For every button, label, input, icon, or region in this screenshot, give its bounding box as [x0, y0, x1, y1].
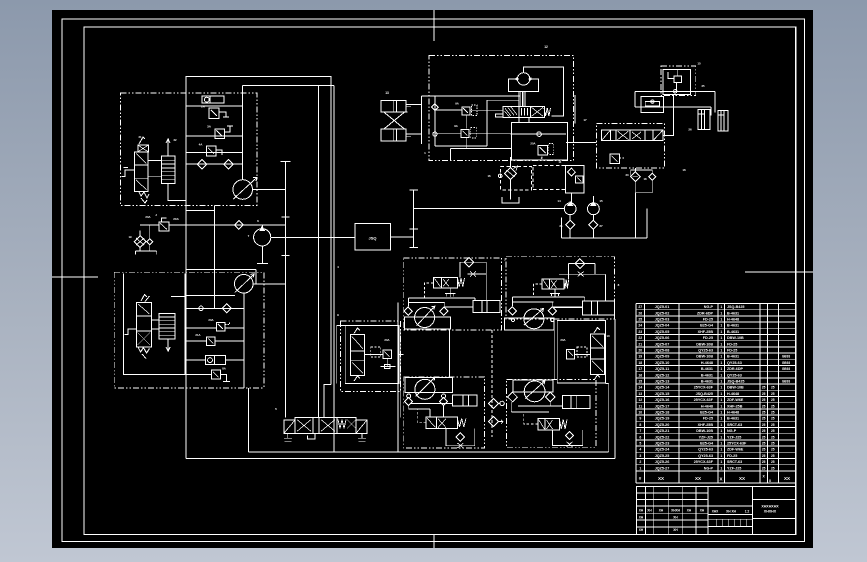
title block left grid: [637, 492, 708, 494]
MC3 motor base: [405, 377, 452, 392]
MC3 bus lines: [411, 402, 452, 404]
big rectangle R1 outline: [186, 76, 331, 458]
svg-text:25: 25: [771, 386, 775, 390]
check diamond on supply: [235, 221, 244, 230]
svg-text:H-4648: H-4648: [727, 318, 739, 322]
svg-text:18: 18: [643, 177, 647, 181]
svg-text:24: 24: [638, 324, 642, 328]
svg-text:18: 18: [638, 361, 642, 365]
MC4 directional valve: [538, 419, 560, 430]
valve V24 drain arrow: [167, 339, 169, 350]
svg-text:1: 1: [720, 404, 722, 408]
svg-text:1: 1: [720, 454, 722, 458]
svg-text:1: 1: [720, 392, 722, 396]
valve V23-V24 connections: [151, 319, 159, 321]
svg-text:25: 25: [762, 386, 766, 390]
filter bracket tank: [139, 247, 141, 251]
svg-text:JQZ5-12: JQZ5-12: [655, 373, 670, 377]
wire MC pair left: [397, 302, 399, 452]
svg-text:FD-25: FD-25: [727, 454, 737, 458]
svg-text:JQZ5-27: JQZ5-27: [655, 466, 670, 470]
svg-text:12: 12: [544, 45, 548, 49]
cylinder feed vertical: [420, 96, 422, 144]
junction ticks on riser: [281, 216, 289, 218]
svg-text:JQZ5-17: JQZ5-17: [655, 404, 670, 408]
line y106 block1: [186, 105, 243, 107]
port circle: [199, 306, 203, 310]
svg-text:2: 2: [639, 460, 641, 464]
svg-text:25: 25: [771, 411, 775, 415]
svg-text:20A: 20A: [173, 217, 179, 221]
svg-text:YZF-J25: YZF-J25: [727, 435, 741, 439]
svg-text:25YCX-63F: 25YCX-63F: [694, 398, 714, 402]
svg-text:JQZ5-21: JQZ5-21: [655, 429, 670, 433]
pump P2: [254, 229, 271, 246]
svg-text:1: 1: [720, 429, 722, 433]
svg-text:B-4631: B-4631: [727, 417, 739, 421]
svg-text:1: 1: [720, 330, 722, 334]
MC3 brake cylinder: [452, 395, 477, 406]
relief valve 3A: [215, 129, 225, 139]
valve V2 tank stub: [519, 117, 529, 123]
svg-text:1: 1: [720, 324, 722, 328]
valve V22 arrow stem: [167, 139, 169, 156]
drive line to aux pumps: [414, 207, 565, 209]
MC1 brake cylinder: [473, 300, 500, 312]
block 10 pipe: [575, 354, 591, 356]
MC2 valve tank: [554, 289, 556, 293]
MC1 valve tank: [449, 288, 451, 294]
svg-text:JQZ5-22: JQZ5-22: [655, 435, 670, 439]
valve V21-V22 connections: [148, 160, 161, 162]
svg-text:JQZ5-18: JQZ5-18: [655, 411, 670, 415]
suction bus line: [562, 237, 647, 239]
block 10 relief: [567, 349, 575, 359]
filter box 16 dashed: [501, 167, 532, 190]
title block outline: [637, 486, 796, 534]
svg-text:22: 22: [638, 336, 642, 340]
dash-dot enclosure D3: [429, 56, 574, 161]
suction filter 19: [134, 236, 146, 248]
svg-text:XH: XH: [639, 509, 644, 513]
svg-text:DBW-10B: DBW-10B: [696, 429, 713, 433]
gauge to valve pipes: [518, 92, 520, 107]
svg-text:25: 25: [771, 404, 775, 408]
dash-dot enclosure D2: [114, 272, 264, 388]
svg-text:20A: 20A: [530, 142, 535, 146]
svg-text:B-4631: B-4631: [727, 355, 739, 359]
svg-text:20A: 20A: [560, 338, 565, 342]
svg-text:1: 1: [720, 398, 722, 402]
pilot return x486.9: [486, 100, 488, 146]
svg-text:JSQ-B425: JSQ-B425: [696, 392, 713, 396]
svg-text:JQZ5-04: JQZ5-04: [655, 324, 671, 328]
svg-text:B25-G4: B25-G4: [700, 442, 714, 446]
valve 5 tank stubs: [284, 433, 292, 441]
svg-text:25YCX-63F: 25YCX-63F: [727, 442, 747, 446]
pump P3 outlet: [253, 283, 285, 285]
main drive line from pump P2 to gearbox: [271, 236, 355, 238]
tank bus line lower: [186, 458, 615, 460]
bus risers: [248, 388, 250, 452]
svg-text:20A: 20A: [208, 318, 213, 322]
reducing valve 20A: [159, 222, 169, 231]
relief valve 4A: [206, 146, 216, 156]
MC3 bottom loop with check and throttle: [446, 428, 475, 445]
svg-text:XH: XH: [687, 509, 692, 513]
svg-text:1: 1: [720, 318, 722, 322]
BOM parts table grid: [636, 303, 796, 305]
svg-text:B-4631: B-4631: [701, 380, 713, 384]
motor circuit 3 enclosure: [404, 377, 485, 448]
svg-text:1: 1: [720, 380, 722, 384]
svg-text:XX: XX: [784, 476, 790, 481]
svg-text:GB93: GB93: [782, 361, 791, 365]
svg-text:25: 25: [771, 398, 775, 402]
svg-text:25: 25: [762, 417, 766, 421]
svg-text:25: 25: [762, 448, 766, 452]
valve V21 left pipe bracket: [122, 170, 135, 176]
check valve diamond b: [224, 160, 233, 169]
svg-text:FD-25: FD-25: [703, 318, 713, 322]
svg-text:NG-P: NG-P: [704, 305, 714, 309]
MC2 port circles: [511, 318, 514, 321]
svg-text:1: 1: [639, 466, 641, 470]
block 9 valve column: [351, 335, 365, 376]
MC3 directional valve: [426, 417, 457, 428]
svg-text:ZDR-6DP: ZDR-6DP: [697, 311, 714, 315]
svg-text:9A: 9A: [455, 102, 459, 106]
svg-text:25: 25: [771, 423, 775, 427]
svg-text:H-4648: H-4648: [727, 411, 739, 415]
motor circuit 4 enclosure: [507, 379, 596, 447]
MC2 brake cylinder: [582, 301, 614, 315]
relief in 17: [610, 154, 620, 163]
dash-dot enclosure D1: [121, 93, 257, 205]
MC2 drain drop: [553, 330, 555, 380]
svg-text:21: 21: [138, 135, 142, 139]
svg-text:1: 1: [720, 448, 722, 452]
svg-text:JQZ5-14: JQZ5-14: [655, 386, 671, 390]
cylinder rod lines: [406, 103, 421, 105]
svg-text:27: 27: [599, 224, 603, 228]
svg-text:FD-25: FD-25: [703, 336, 713, 340]
svg-text:3: 3: [639, 454, 641, 458]
block 9 inner rect: [345, 326, 399, 384]
valve stack V23 body: [137, 302, 152, 347]
svg-text:16: 16: [638, 373, 642, 377]
svg-text:JQZ5-15: JQZ5-15: [655, 392, 670, 396]
svg-text:NG-P: NG-P: [704, 466, 714, 470]
svg-text:14: 14: [638, 386, 642, 390]
svg-text:QY25-63: QY25-63: [727, 373, 742, 377]
svg-text:20A: 20A: [145, 215, 150, 219]
valve V2 to 17 drop: [574, 95, 576, 123]
svg-text:25: 25: [762, 404, 766, 408]
relief valve 6A: [207, 337, 215, 346]
check diamond: [222, 304, 231, 313]
svg-text:20: 20: [638, 349, 642, 353]
svg-text:25: 25: [701, 84, 705, 88]
svg-text:1: 1: [720, 336, 722, 340]
svg-text:JQZ5-03: JQZ5-03: [655, 318, 670, 322]
relief valve 7A: [212, 370, 221, 379]
MC4 brake cylinder: [563, 396, 590, 409]
svg-text:XH: XH: [700, 509, 705, 513]
pilot line upper y91: [635, 90, 715, 92]
tank bus line upper: [249, 451, 609, 453]
svg-text:1: 1: [720, 355, 722, 359]
check valve diamond a: [197, 160, 206, 169]
manifold port circle: [537, 132, 542, 137]
svg-text:1: 1: [720, 349, 722, 353]
centering tick left: [52, 276, 98, 278]
svg-text:XH: XH: [659, 509, 664, 513]
svg-text:XHF-25B: XHF-25B: [698, 330, 714, 334]
svg-text:QY25-63: QY25-63: [698, 454, 713, 458]
proportional valve V24 (hatched): [159, 313, 175, 339]
svg-text:21A: 21A: [195, 333, 200, 337]
svg-text:21: 21: [559, 224, 563, 228]
svg-text:B-4631: B-4631: [701, 373, 713, 377]
D2 inner rect: [124, 273, 212, 374]
svg-text:B25-G4: B25-G4: [700, 411, 714, 415]
pump P1: [233, 180, 253, 200]
feed header line y95.9: [421, 95, 520, 97]
svg-text:SRCT-63: SRCT-63: [727, 423, 742, 427]
svg-text:25YCX-63F: 25YCX-63F: [694, 460, 714, 464]
svg-text:JQZ5-25: JQZ5-25: [655, 454, 670, 458]
svg-text:16: 16: [487, 174, 491, 178]
svg-text:JQZ5-07: JQZ5-07: [655, 342, 670, 346]
svg-text:JSQ: JSQ: [368, 236, 376, 241]
accumulator 2 capsule: [202, 96, 224, 103]
svg-text:8A: 8A: [222, 367, 226, 371]
svg-text:1: 1: [720, 411, 722, 415]
MC1 valve pilot dashes: [425, 283, 434, 298]
svg-text:JQZ5-26: JQZ5-26: [655, 460, 670, 464]
svg-text:XHF-25B: XHF-25B: [698, 423, 714, 427]
wire from D1 into D2: [214, 205, 216, 308]
line y164 with check valves: [186, 163, 243, 165]
pump P3 drain vertical: [243, 293, 245, 388]
svg-text:19: 19: [638, 355, 642, 359]
svg-text:25: 25: [762, 398, 766, 402]
svg-text:25: 25: [762, 466, 766, 470]
svg-text:NG-P: NG-P: [727, 429, 737, 433]
svg-text:DBW-10B: DBW-10B: [696, 355, 713, 359]
block 9 relief: [383, 350, 392, 359]
svg-text:GB93: GB93: [782, 355, 791, 359]
svg-text:H-4648: H-4648: [701, 361, 713, 365]
filter11 to pump14 drop: [571, 193, 573, 203]
svg-text:25: 25: [762, 423, 766, 427]
block 9 outside wire: [337, 326, 346, 384]
block 9 orifice loop: [380, 359, 395, 367]
box 15 valve square: [674, 76, 681, 83]
svg-text:YZF-J25: YZF-J25: [727, 466, 741, 470]
svg-text:21: 21: [638, 342, 642, 346]
svg-text:JQZ5-08: JQZ5-08: [655, 349, 670, 353]
MC4 motor base: [513, 380, 553, 392]
svg-text:17: 17: [638, 367, 642, 371]
manifold relief 20A: [538, 146, 548, 155]
svg-text:JQZ5-09: JQZ5-09: [655, 355, 670, 359]
block 9 pipe: [364, 354, 382, 356]
svg-text:25: 25: [771, 448, 775, 452]
wire vertical x334: [333, 86, 335, 453]
bypass check 19a: [147, 239, 153, 245]
svg-text:10: 10: [606, 334, 610, 338]
D2 inner-right enclosure top: [186, 269, 256, 271]
svg-text:1: 1: [720, 367, 722, 371]
svg-text:FD-25: FD-25: [727, 349, 737, 353]
svg-text:1: 1: [720, 466, 722, 470]
svg-text:25: 25: [762, 442, 766, 446]
svg-text:JQZ5-05: JQZ5-05: [655, 330, 670, 334]
MC2 directional valve: [542, 279, 564, 289]
inner border frame: [84, 27, 796, 535]
valve stack V21 body: [134, 152, 148, 192]
pump14 suction check 21: [566, 220, 575, 229]
drive shaft line: [413, 190, 415, 248]
dash-dot enclosure 17: [597, 123, 665, 167]
svg-text:XH XH: XH XH: [726, 510, 736, 514]
svg-text:1: 1: [720, 311, 722, 315]
MC4 bottom loop: [553, 430, 583, 446]
valve V22 drain to R1: [168, 184, 186, 201]
svg-text:JQZ5-20: JQZ5-20: [655, 423, 670, 427]
scissor cross linkage: [384, 112, 405, 129]
svg-text:25: 25: [762, 411, 766, 415]
svg-text:DBW-10B: DBW-10B: [696, 342, 713, 346]
svg-text:23: 23: [625, 173, 629, 177]
svg-text:JQZ5-19: JQZ5-19: [655, 417, 670, 421]
block 10 rect: [557, 320, 605, 383]
motor circuit 1 enclosure: [404, 258, 502, 330]
line from R1 to drop x214.5: [186, 209, 214, 211]
valve feed lines D3: [435, 109, 462, 111]
box 15 inner rect: [663, 70, 690, 95]
svg-text:1: 1: [720, 373, 722, 377]
relief valve 8 lower: [461, 129, 469, 137]
svg-text:1: 1: [720, 305, 722, 309]
plugged port cap and main riser x285.5: [285, 162, 287, 418]
MC3 valve pilot dashes: [417, 409, 426, 423]
pilot block 24: [641, 97, 663, 113]
MC2 valve pilot dashes: [533, 284, 542, 297]
svg-text:QY25-63: QY25-63: [727, 361, 742, 365]
svg-text:X: X: [719, 477, 722, 482]
svg-text:13: 13: [385, 91, 389, 95]
wire vertical x242.7 upper: [242, 86, 244, 180]
svg-text:25: 25: [771, 460, 775, 464]
line y152 block1: [186, 152, 243, 154]
valve V2 left tab: [496, 114, 503, 117]
svg-text:JSQ-B425: JSQ-B425: [727, 380, 744, 384]
directional valve V3 in 17: [601, 130, 662, 141]
svg-text:QY25-63: QY25-63: [698, 448, 713, 452]
MC1 brake line: [445, 306, 474, 308]
centering tick top: [433, 10, 435, 41]
outer border frame: [62, 19, 805, 542]
filter diamond 16 with bypass port: [505, 168, 517, 180]
scissor cylinder lower: [381, 129, 406, 141]
title block middle grid: [708, 505, 752, 507]
rect R2 top: [243, 85, 319, 87]
proportional valve stack V21 top X-section: [138, 145, 149, 152]
svg-text:13: 13: [638, 392, 642, 396]
svg-text:XX: XX: [739, 476, 745, 481]
supply line y224.9: [140, 224, 159, 226]
MC1 top check loop: [460, 261, 486, 263]
svg-text:XH: XH: [673, 528, 678, 532]
proportional valve stack V22 body (hatched): [161, 156, 175, 183]
centering tick right: [745, 271, 813, 273]
svg-text:25: 25: [762, 454, 766, 458]
MC1 directional valve: [434, 277, 458, 287]
svg-text:23: 23: [638, 330, 642, 334]
svg-text:XH: XH: [639, 516, 644, 520]
svg-text:11: 11: [639, 404, 643, 408]
port circle D3: [433, 132, 437, 136]
svg-text:1: 1: [720, 342, 722, 346]
pilot line lower y107: [635, 106, 711, 108]
MC2 brake line: [552, 306, 582, 308]
svg-text:1: 1: [720, 442, 722, 446]
svg-text:XH: XH: [647, 509, 652, 513]
pump P3: [235, 275, 254, 294]
svg-text:26: 26: [638, 311, 642, 315]
relief valve 2A: [209, 108, 219, 118]
svg-text:FD-25: FD-25: [703, 417, 713, 421]
svg-text:1: 1: [720, 361, 722, 365]
svg-text:ZDF-W6E: ZDF-W6E: [727, 398, 744, 402]
svg-text:XH: XH: [639, 528, 644, 532]
gearbox box with text: [355, 224, 391, 250]
valve V21 pilot arrows top: [139, 137, 145, 144]
pressure gauge: [517, 73, 529, 85]
svg-text:GB93: GB93: [782, 380, 791, 384]
pump15 suction check 27: [589, 220, 598, 229]
svg-text:XHXH: XHXH: [671, 509, 681, 513]
valve V23 arrows top: [141, 295, 147, 302]
MC4 bus lines: [511, 411, 549, 413]
D3 to filter16 drop: [510, 157, 512, 168]
MC2 throttle: [578, 272, 584, 277]
MC4 check diamonds: [508, 392, 518, 402]
block 9 valve arrows: [354, 328, 360, 334]
block 10 valve arrows: [594, 328, 600, 334]
valve V23 spring bottom: [138, 347, 150, 353]
pump P3 inlet line: [185, 295, 235, 297]
svg-text:20A: 20A: [384, 338, 389, 342]
check diamond D3: [432, 104, 439, 111]
gearbox outlet line: [390, 236, 413, 238]
svg-text:B-4631: B-4631: [701, 367, 713, 371]
gauge loop to valve right: [524, 67, 564, 116]
svg-text:1: 1: [720, 423, 722, 427]
gauge bracket: [508, 79, 538, 92]
svg-text:XX: XX: [695, 476, 701, 481]
svg-text:1:2: 1:2: [745, 510, 750, 514]
svg-text:19: 19: [128, 235, 132, 239]
MC4 valve pilot dashes: [524, 412, 538, 424]
svg-text:27: 27: [638, 305, 642, 309]
valve 5 multi-section: [284, 420, 295, 433]
svg-text:14: 14: [557, 199, 561, 203]
block 9 dash-dot enclosure: [340, 321, 400, 391]
